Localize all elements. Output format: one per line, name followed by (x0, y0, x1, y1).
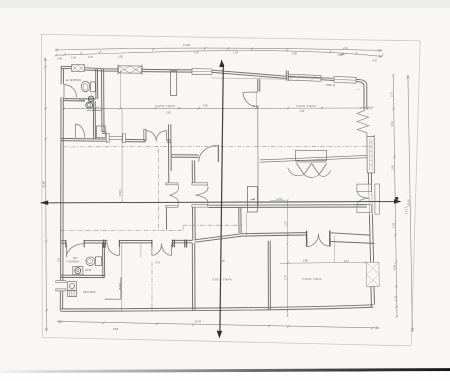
svg-text:0.97: 0.97 (373, 60, 378, 63)
door: right double door up left arc (307, 234, 319, 247)
svg-text:ΚΑΤΩ ΤΗΡΑ: ΚΑΤΩ ΤΗΡΑ (213, 277, 233, 281)
door: room B entry leaf (243, 91, 258, 93)
door: mid wall door1 arc (67, 244, 85, 257)
dashed overhang line: lower right (183, 224, 242, 226)
svg-text:1.78: 1.78 (155, 261, 160, 264)
wall: right exterior door zone faces (369, 184, 373, 214)
tick marks y263 (287, 261, 367, 264)
dimension line: left outer height (45, 58, 46, 332)
wall: vestibule horizontal y155-157 (171, 155, 199, 158)
wall: left exterior outer face (60, 66, 61, 311)
door: right double door up right arc (319, 234, 330, 246)
wall: WC2 top thin y110.3 (87, 109, 102, 111)
svg-text:0.40: 0.40 (57, 57, 62, 60)
fixture: WC men cistern (91, 82, 96, 92)
wall: hall west vertical x192-194.6 upper (192, 160, 195, 182)
extension line: window edge x120 (119, 70, 121, 108)
fixture: WC women toilet (86, 257, 95, 266)
fixture: chimney rect (247, 187, 257, 213)
svg-text:ΚΑΤΩ ΤΗΡΑ: ΚΑΤΩ ΤΗΡΑ (297, 104, 317, 108)
fixture: corridor washbasin circle (88, 96, 93, 101)
wall: room B west vertical x257.7-259.7 top (258, 79, 260, 92)
dimension line: horizontal y263 bottom right room (280, 262, 366, 263)
dimension line: vertical interior x122 lower (121, 244, 123, 311)
door: double door up left leaf (145, 131, 147, 141)
tick marks interior dimension (62, 107, 373, 110)
door: WC men entry arc (64, 85, 77, 98)
step line: double across room B (260, 155, 367, 162)
window: WC block top bowtie (71, 65, 84, 72)
wall: right exterior top corner rounded (356, 79, 367, 109)
wall: top exterior main left inner face (103, 71, 286, 78)
dashed overhang line: lower left (61, 229, 183, 231)
door: WC2 arc (75, 124, 85, 138)
door: hall double door lower leaf bar (192, 205, 208, 207)
svg-text:ΓΥΝΑΙΚΩΝ: ΓΥΝΑΙΚΩΝ (67, 261, 80, 264)
door: french door upper leaf rect (357, 184, 371, 192)
wall: right exterior below window to corner (371, 286, 375, 307)
svg-text:1.73: 1.73 (393, 295, 397, 301)
svg-text:3.60: 3.60 (220, 260, 225, 263)
top scanner strip (0, 0, 450, 7)
wall: right exterior between zigzag and tall window (367, 134, 374, 136)
window: tall french window right wall (367, 137, 375, 173)
door: french door lower arc (357, 198, 369, 204)
svg-text:(2.17): (2.17) (253, 105, 259, 108)
door: WC men entry leaf (63, 85, 65, 98)
fixture: table in room B (295, 150, 326, 160)
svg-text:(3.94): (3.94) (119, 283, 122, 290)
wall: left exterior inner face (63, 69, 64, 309)
door: double door up right arc (156, 131, 167, 141)
svg-text:3.62: 3.62 (166, 112, 171, 115)
svg-text:0.97: 0.97 (285, 221, 288, 226)
small hatch marks right wall base (405, 208, 408, 214)
wall: top exterior WC block inner face (61, 69, 103, 72)
arrowheads bottom (57, 320, 379, 329)
svg-text:1.10: 1.10 (194, 51, 199, 54)
door: mid wall door2 leaf (118, 244, 120, 256)
wall: mid wall left inner face (61, 242, 192, 244)
arrowheads left outer (44, 58, 48, 332)
kitchen counter line (105, 298, 121, 300)
wall: hall west vertical x192-194.6 lower (193, 207, 196, 240)
dimension line: vertical interior x122 upper (121, 109, 123, 202)
svg-text:2.70: 2.70 (389, 91, 393, 97)
svg-text:13.75: 13.75 (195, 320, 202, 324)
door: french door upper arc (357, 192, 369, 198)
svg-text:13.60: 13.60 (183, 43, 190, 47)
jamb stubs right double door (307, 231, 331, 247)
wall: bottom-left room divider x102.5-104.3 (103, 243, 105, 277)
wall: corridor east vertical x101.5-103.6 (102, 69, 105, 132)
door: vestibule south arc (199, 145, 219, 162)
wall: WC men bottom partition (64, 99, 96, 101)
svg-text:2.70: 2.70 (285, 275, 288, 280)
door: dumbbell symbol corridor exit (106, 134, 125, 143)
section marker square right (395, 197, 398, 200)
svg-text:1Θ Ø: 1Θ Ø (85, 269, 91, 272)
fixture: WC2 toilet (86, 102, 93, 108)
svg-text:3.05: 3.05 (390, 164, 394, 170)
tick marks right inner dimension (392, 74, 398, 318)
arrowheads overall top (55, 49, 382, 52)
door: mid wall double door right arc (162, 244, 172, 256)
svg-text:WC: WC (73, 257, 77, 260)
extension line: x246.3 chimney edge (245, 213, 247, 236)
door: room B entry arc (243, 92, 258, 107)
door: vestibule south leaf (217, 145, 219, 162)
section arrow right (394, 199, 402, 204)
jamb stubs mid wall (66, 240, 187, 248)
door: WC2 leaf (74, 124, 76, 138)
dimension line: right outer height (408, 75, 413, 332)
section arrow bottom (217, 331, 223, 339)
door: closed leaf jamb rect (144, 129, 146, 141)
dimension line: bottom overall (57, 321, 379, 328)
svg-text:1Θ Ø: 1Θ Ø (79, 98, 85, 101)
svg-text:3.85: 3.85 (292, 53, 297, 56)
wall: right exterior lower (369, 214, 373, 262)
fixture: WC women washbasin square (73, 266, 83, 274)
fixture: kitchen stove (68, 290, 77, 296)
wall: WC2 left vertical x93.4-95.3 (93, 101, 95, 139)
window: bottom right wall window with X (366, 262, 379, 286)
fixture: corridor counter rect (96, 126, 105, 138)
zigzag stair-break symbol right wall (357, 110, 369, 134)
window: top wall x192-212 (192, 69, 212, 75)
door: double door up right leaf (166, 131, 168, 141)
tick marks segmented top dimension (55, 47, 384, 57)
svg-text:ΓΡΑΦ. Φ: ΓΡΑΦ. Φ (326, 84, 335, 87)
door: west double door lower leaf bar (166, 205, 178, 207)
door: hall double door arcs (196, 185, 209, 204)
fixture: folding chair V right (312, 163, 327, 174)
svg-text:5.96: 5.96 (113, 327, 119, 331)
svg-text:2.82: 2.82 (118, 55, 123, 58)
svg-text:2.41: 2.41 (344, 260, 349, 263)
tick marks bottom dimension (60, 321, 373, 330)
svg-text:1.10: 1.10 (390, 120, 394, 126)
svg-text:2.70: 2.70 (88, 56, 93, 59)
svg-text:2.36: 2.36 (340, 53, 345, 56)
svg-text:4.55: 4.55 (203, 105, 208, 108)
svg-text:ΚΑΤΩ ΤΗΡΑ: ΚΑΤΩ ΤΗΡΑ (303, 277, 323, 281)
dimension line: top-right short ends with arrows (379, 55, 382, 57)
fixture: folding chair V left (296, 163, 311, 174)
wall: mid wall right lower face (195, 235, 375, 243)
fixture: WC men toilet bowl (81, 81, 90, 92)
svg-text:ΚΟΥΖΙΝΑ: ΚΟΥΖΙΝΑ (83, 290, 96, 294)
wall: top exterior WC block outer face (61, 66, 103, 69)
window: top window x334-356 (334, 76, 356, 83)
door: right double door up left leaf (306, 239, 308, 247)
extension line: x140.9 (140, 244, 142, 258)
svg-text:1.45: 1.45 (233, 51, 238, 54)
wall: mid wall right upper face (195, 233, 370, 240)
chimney inner mark (250, 198, 255, 200)
dimension line: overall top width 13.60 (55, 48, 382, 50)
wall: kitchen east boundary x120.9 (120, 278, 122, 300)
fixture: chair scallop arcs (288, 168, 331, 178)
wall: bottom exterior outer face (61, 307, 373, 311)
table bottom double edge (295, 161, 326, 163)
section arrow left (40, 200, 48, 205)
section line B-B horizontal (41, 202, 399, 203)
wall: vestibule vertical x168-171 (166, 124, 171, 230)
dimension line: right inner heights (393, 75, 397, 317)
wall: WC women south y275-277 (61, 275, 105, 277)
wall: right exterior between window and french door (368, 173, 371, 185)
dimension line: interior horizontal through plan (63, 107, 372, 110)
faint strip edge (0, 6, 450, 8)
svg-text:⌐⌐: ⌐⌐ (357, 89, 361, 92)
dimension line: vertical interior x287.6 (287, 200, 289, 317)
svg-text:2.16: 2.16 (343, 47, 348, 50)
section line A-A vertical (220, 64, 223, 331)
dashed overhang line: upper (63, 145, 371, 148)
door: mid wall door1 leaf (66, 244, 68, 257)
door: mid wall double door left leaf (151, 244, 153, 256)
door: hall double door upper leaf bar (192, 183, 208, 185)
section arrow top (219, 59, 224, 67)
dashed overhang jog (182, 225, 184, 230)
wall: vestibule pier rect (171, 71, 177, 96)
tick marks x287.6 (286, 199, 289, 317)
wall: WC inner vertical x95.7-97.3 (96, 69, 98, 99)
door: french door outer casing (375, 184, 379, 214)
svg-text:1.60: 1.60 (71, 57, 76, 60)
extension line: door edge x256.7 (256, 92, 258, 108)
svg-text:10.96: 10.96 (41, 181, 45, 188)
wall: WC block bottom inner (61, 141, 171, 143)
white area below streak (0, 371, 450, 381)
svg-text:0.90: 0.90 (59, 257, 61, 262)
wall: mid wall left outer face (61, 239, 192, 241)
extension line: x334.5 door edge (334, 236, 336, 262)
door: right double door up right leaf (328, 238, 330, 246)
door: mid wall door2 arc (108, 244, 120, 256)
window: second top bowtie (118, 64, 142, 75)
dashed line: vertical bottom x152 (151, 262, 153, 311)
post in top wall at x287 (286, 71, 288, 81)
door: french door lower leaf rect (357, 204, 371, 212)
svg-text:3.50: 3.50 (300, 110, 305, 113)
dimension line: segmented top (56, 50, 383, 56)
beam line under top wall (211, 78, 285, 79)
window: long top window x288-321 (288, 74, 321, 82)
door: left wall entry jamb bars (56, 281, 66, 291)
svg-text:(2.40): (2.40) (277, 199, 283, 201)
dashed line: vertical mid x158 (157, 149, 159, 231)
scanner bottom dark streak (0, 370, 450, 372)
wall: top exterior right section inner face (321, 79, 334, 82)
drawing frame border (41, 34, 420, 346)
wall: horizontal y205-207 hall south (208, 205, 366, 208)
door: mid wall double door right leaf (171, 244, 173, 256)
door: double door up left arc (146, 131, 156, 141)
svg-text:1.93: 1.93 (391, 222, 395, 228)
svg-text:4.08: 4.08 (393, 264, 397, 270)
arrowheads right outer (407, 75, 414, 332)
fixture: kitchen sink square (68, 282, 77, 291)
wall: room B west vertical thin continuation (257, 107, 259, 206)
wall: WC block bottom outer (61, 138, 171, 140)
svg-text:ΚΑΤΩ ΤΗΡΑ: ΚΑΤΩ ΤΗΡΑ (156, 104, 176, 108)
tick marks left outer dimension (44, 66, 48, 312)
svg-text:3.95: 3.95 (303, 259, 308, 262)
door: mid wall double door left arc (152, 244, 162, 256)
door: west double door upper leaf bar (166, 183, 178, 185)
wall: top exterior right section outer face (288, 76, 334, 78)
dimension line: small horizontal y200 near chimney (271, 199, 286, 201)
wall: vertical x239 connector (239, 208, 241, 234)
wall: top exterior main left outer face (103, 69, 286, 76)
wall: bottom-right room west x268-270 (268, 241, 270, 310)
svg-text:wc ΑΝΤΡΩΝ: wc ΑΝΤΡΩΝ (66, 78, 82, 82)
door: west double door arcs (170, 185, 179, 205)
svg-text:10.42: 10.42 (406, 199, 410, 206)
wall: bottom exterior inner face (61, 305, 373, 309)
svg-text:(3.01): (3.01) (119, 189, 122, 196)
wall: corridor L-turn horizontal (102, 132, 107, 134)
fixture: WC women cistern (95, 257, 101, 266)
wall: bottom-middle divider x192-194.5 (192, 243, 195, 310)
